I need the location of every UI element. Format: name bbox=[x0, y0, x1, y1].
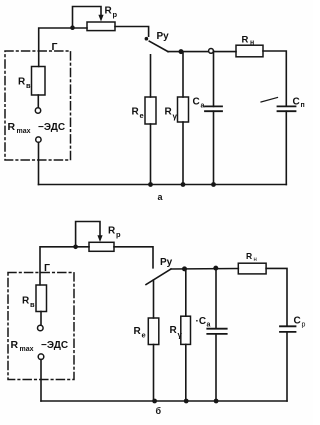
label Ca bbox=[193, 97, 205, 110]
wire wiper loop of Rp b bbox=[76, 222, 100, 247]
resistor Rn body bbox=[236, 45, 263, 57]
terminal lower circle bbox=[36, 137, 41, 142]
capacitor Cp leader tick bbox=[261, 98, 278, 103]
svg-text:γ: γ bbox=[173, 112, 178, 121]
label Rgamma bbox=[165, 107, 178, 122]
capacitor Cr plates bbox=[280, 326, 296, 332]
svg-text:б: б bbox=[156, 406, 162, 416]
wire from generator box b up to rail bbox=[40, 247, 89, 285]
node bottom dot Re b bbox=[152, 399, 157, 404]
terminal upper circle b bbox=[38, 325, 44, 331]
resistor Re body b bbox=[148, 318, 159, 345]
svg-text:а: а bbox=[207, 322, 211, 329]
svg-text:R: R bbox=[246, 251, 252, 261]
wire Rgamma branch bottom bbox=[182, 122, 184, 185]
label G bbox=[52, 41, 58, 53]
wire Ca branch bottom bbox=[213, 111, 215, 184]
label G b bbox=[44, 262, 50, 274]
wire Rv to terminal b bbox=[40, 312, 42, 326]
generator box b (dash-dot) bbox=[8, 273, 74, 380]
svg-text:−ЭДС: −ЭДС bbox=[38, 122, 65, 133]
svg-text:а: а bbox=[201, 103, 205, 110]
wire right rail lower b bbox=[286, 332, 288, 401]
wire wiper loop of Rp bbox=[73, 7, 102, 28]
svg-text:С: С bbox=[193, 97, 200, 108]
label Rv b bbox=[22, 296, 35, 310]
svg-text:R: R bbox=[11, 339, 19, 351]
wire Rgamma branch bottom b bbox=[185, 344, 187, 401]
resistor Rp body bbox=[87, 22, 115, 31]
wire Ca branch top b bbox=[215, 268, 217, 329]
wire from Rp to switch bbox=[115, 27, 149, 37]
svg-text:р: р bbox=[113, 10, 118, 19]
wire bottom rail b bbox=[41, 400, 287, 402]
resistor Re body bbox=[145, 97, 156, 124]
capacitor Ca plates b bbox=[207, 329, 226, 334]
svg-text:п: п bbox=[301, 102, 305, 109]
wire top rail b bbox=[171, 268, 238, 271]
wire bottom rail a bbox=[39, 184, 287, 186]
resistor Rn body b bbox=[238, 263, 266, 274]
node junction at wiper-loop left bbox=[70, 25, 75, 30]
label Ca b bbox=[196, 316, 211, 329]
wiper arrowhead onto Rp bbox=[98, 15, 103, 22]
svg-text:Ру: Ру bbox=[157, 31, 170, 42]
svg-text:R: R bbox=[22, 296, 30, 307]
node junction at wiper-loop left b bbox=[73, 245, 78, 250]
label Cr bbox=[294, 316, 306, 329]
svg-text:R: R bbox=[242, 35, 249, 46]
wire terminal to bottom rail bbox=[38, 143, 40, 185]
wire right rail lower bbox=[285, 111, 287, 184]
label Cp bbox=[293, 97, 305, 110]
svg-text:R: R bbox=[132, 107, 140, 118]
svg-text:е: е bbox=[142, 331, 146, 340]
wire Rgamma branch top b bbox=[185, 269, 187, 316]
resistor Rv body b bbox=[36, 285, 47, 312]
terminal upper circle bbox=[35, 108, 40, 113]
svg-text:R: R bbox=[8, 121, 16, 133]
svg-text:р: р bbox=[302, 322, 306, 329]
svg-text:R: R bbox=[165, 107, 173, 118]
label Rgamma b bbox=[170, 325, 183, 340]
wire top rail a bbox=[168, 51, 236, 53]
label Rn b bbox=[246, 251, 257, 263]
svg-text:R: R bbox=[108, 226, 116, 237]
label Re bbox=[132, 107, 144, 121]
wire from Rn b to right rail down bbox=[266, 268, 287, 326]
switch Ru blade bbox=[149, 41, 168, 51]
resistor Rgamma body b bbox=[181, 316, 191, 344]
switch Ru blade b bbox=[146, 269, 171, 285]
label b bbox=[156, 406, 162, 416]
svg-text:R: R bbox=[170, 325, 178, 336]
wire Rv to terminal bbox=[37, 95, 39, 108]
node bottom dot Ca b bbox=[214, 399, 219, 404]
label Rn bbox=[242, 35, 255, 47]
node junction dot Rgamma top b bbox=[182, 266, 187, 271]
svg-text:р: р bbox=[116, 230, 121, 239]
resistor Rp body b bbox=[89, 242, 114, 251]
svg-text:С: С bbox=[294, 316, 301, 327]
wire Re branch top b bbox=[153, 280, 155, 318]
label Re b bbox=[134, 326, 146, 340]
wire Re branch top bbox=[150, 55, 152, 97]
node bottom dot Re bbox=[148, 182, 153, 187]
svg-text:Г: Г bbox=[52, 41, 58, 53]
resistor Rv body bbox=[32, 67, 46, 96]
capacitor Ca plates bbox=[205, 106, 222, 111]
wire from Rn to right rail down bbox=[263, 51, 286, 106]
svg-text:а: а bbox=[158, 192, 164, 202]
switch Ru pivot dot bbox=[145, 37, 149, 41]
label Rmax -EDS b bbox=[11, 339, 69, 353]
wire Re branch bottom bbox=[150, 124, 152, 185]
wire Ca branch bottom b bbox=[215, 334, 217, 401]
terminal lower circle b bbox=[38, 354, 44, 360]
svg-text:в: в bbox=[26, 81, 31, 90]
svg-text:н: н bbox=[250, 40, 254, 47]
svg-text:R: R bbox=[18, 77, 26, 88]
svg-text:max: max bbox=[17, 128, 31, 135]
svg-text:max: max bbox=[20, 346, 34, 353]
svg-text:R: R bbox=[105, 6, 113, 17]
wire terminal to bottom rail b bbox=[40, 360, 42, 402]
wire Rgamma branch top bbox=[182, 52, 184, 97]
node bottom dot Rgamma bbox=[181, 182, 186, 187]
svg-text:γ: γ bbox=[178, 331, 183, 340]
svg-text:Ру: Ру bbox=[160, 257, 173, 268]
svg-text:−ЭДС: −ЭДС bbox=[41, 340, 68, 351]
generator box (dash-dot) bbox=[5, 51, 71, 160]
wire from generator box up to top rail bbox=[39, 28, 87, 67]
svg-text:Г: Г bbox=[44, 262, 50, 274]
svg-text:R: R bbox=[134, 326, 142, 337]
label Ru bbox=[157, 31, 170, 42]
label Rmax -EDS bbox=[8, 121, 66, 135]
node junction dot at Rgamma top bbox=[179, 49, 184, 54]
svg-text:е: е bbox=[140, 111, 144, 120]
svg-text:н: н bbox=[254, 257, 257, 263]
capacitor Cp plates bbox=[278, 106, 296, 111]
node bottom dot Ca bbox=[211, 182, 216, 187]
node bottom dot Rgamma b bbox=[184, 399, 189, 404]
label Ru b bbox=[160, 257, 173, 268]
wire from Rp b to switch contact bbox=[114, 247, 153, 268]
svg-text:·С: ·С bbox=[196, 316, 207, 327]
label Rp b bbox=[108, 226, 121, 240]
wire Re branch bottom b bbox=[153, 345, 155, 402]
wiper arrowhead onto Rp b bbox=[97, 235, 102, 242]
svg-text:в: в bbox=[30, 300, 35, 309]
node open terminal at Ca top bbox=[209, 49, 214, 54]
label a bbox=[158, 192, 164, 202]
wire Ca branch top bbox=[213, 51, 215, 106]
label Rp bbox=[105, 6, 118, 20]
node junction dot Ca top b bbox=[213, 266, 218, 271]
resistor Rgamma body bbox=[178, 97, 189, 122]
svg-text:С: С bbox=[293, 97, 300, 108]
label Rv bbox=[18, 77, 31, 91]
